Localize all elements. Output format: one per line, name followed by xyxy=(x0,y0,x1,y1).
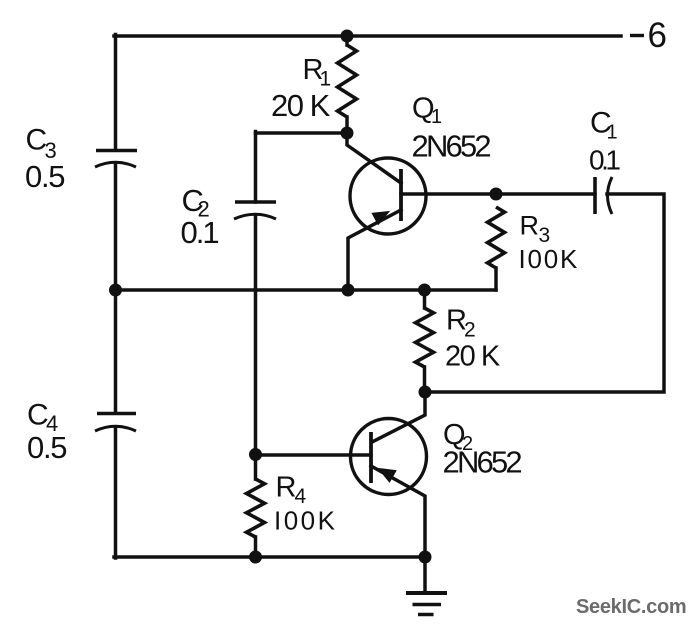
ground xyxy=(406,593,447,615)
wire Q2 collector lead xyxy=(372,392,425,442)
svg-text:20 K: 20 K xyxy=(445,341,501,373)
svg-text:R: R xyxy=(520,211,540,241)
wire C2 branch corner to R1 bottom xyxy=(254,132,258,203)
label -6 supply xyxy=(630,34,644,37)
capacitor C2 xyxy=(234,202,276,219)
wire top rail -6 supply xyxy=(114,34,621,38)
wire bottom rail xyxy=(114,555,425,559)
svg-text:2: 2 xyxy=(464,319,476,342)
node dot: R1 top at supply rail xyxy=(341,30,354,43)
wire node to C1 left plate xyxy=(496,192,595,196)
wire Q1 emitter lead down to mid rail xyxy=(348,210,401,290)
svg-text:2N652: 2N652 xyxy=(412,129,491,164)
transistor Q1 emitter arrow xyxy=(372,212,389,225)
resistor R2 xyxy=(416,308,434,367)
svg-text:I00K: I00K xyxy=(274,506,338,536)
node dot: R1 bottom / C2 wire / Q1 collector xyxy=(341,127,354,140)
svg-text:0.1: 0.1 xyxy=(181,215,219,250)
wire R2 stubs xyxy=(423,290,427,308)
svg-text:1: 1 xyxy=(431,106,442,128)
wire R3 bottom stub xyxy=(494,268,498,290)
node dot: Q2 emitter / bottom rail / ground xyxy=(419,551,432,564)
wire R1 stubs xyxy=(345,36,349,45)
svg-text:I00K: I00K xyxy=(519,244,580,274)
svg-text:0.5: 0.5 xyxy=(27,430,66,465)
svg-text:SeekIC.com: SeekIC.com xyxy=(576,596,686,618)
node dot: C2 / R4 / Q2 base xyxy=(249,448,262,461)
node dot: R2 bottom / Q2 collector / feedback wire xyxy=(419,386,432,399)
wire Q1 collector lead xyxy=(347,133,401,183)
svg-text:0.5: 0.5 xyxy=(25,159,64,194)
capacitor C3 xyxy=(95,151,137,168)
wire Q1 base lead to node xyxy=(401,192,496,196)
capacitor C4 xyxy=(95,414,136,432)
transistor Q1 xyxy=(350,158,426,234)
resistor R4 xyxy=(247,479,265,537)
wire mid rail node xyxy=(116,288,497,292)
svg-text:20 K: 20 K xyxy=(271,88,331,123)
node dot: left branch at mid rail xyxy=(109,284,122,297)
svg-text:1: 1 xyxy=(607,122,618,144)
transistor Q2 emitter arrow xyxy=(379,469,397,483)
resistor R1 xyxy=(338,45,357,117)
node dot: Q1 base / R3 / C1 xyxy=(490,188,503,201)
resistor R3 xyxy=(488,207,505,268)
wire Q2 emitter lead down to ground rail xyxy=(371,466,425,557)
svg-text:R: R xyxy=(276,472,297,504)
svg-text:2N652: 2N652 xyxy=(443,445,522,480)
node dot: Q1 emitter at mid rail xyxy=(342,284,355,297)
wire Q2 base lead from R4 node xyxy=(256,453,372,457)
wire C1 right plate to corner and right vertical xyxy=(425,194,664,392)
wire ground stem xyxy=(423,557,427,592)
wire left branch vertical (C3/C4 string) xyxy=(114,35,118,151)
svg-text:0.1: 0.1 xyxy=(589,145,620,176)
transistor Q2 xyxy=(351,419,427,495)
wire R4 stubs xyxy=(254,455,258,479)
node dot: R4 bottom at bottom rail xyxy=(249,551,262,564)
svg-text:6: 6 xyxy=(648,16,667,55)
node dot: R2 top at mid rail xyxy=(418,284,431,297)
capacitor C1 xyxy=(595,177,612,214)
